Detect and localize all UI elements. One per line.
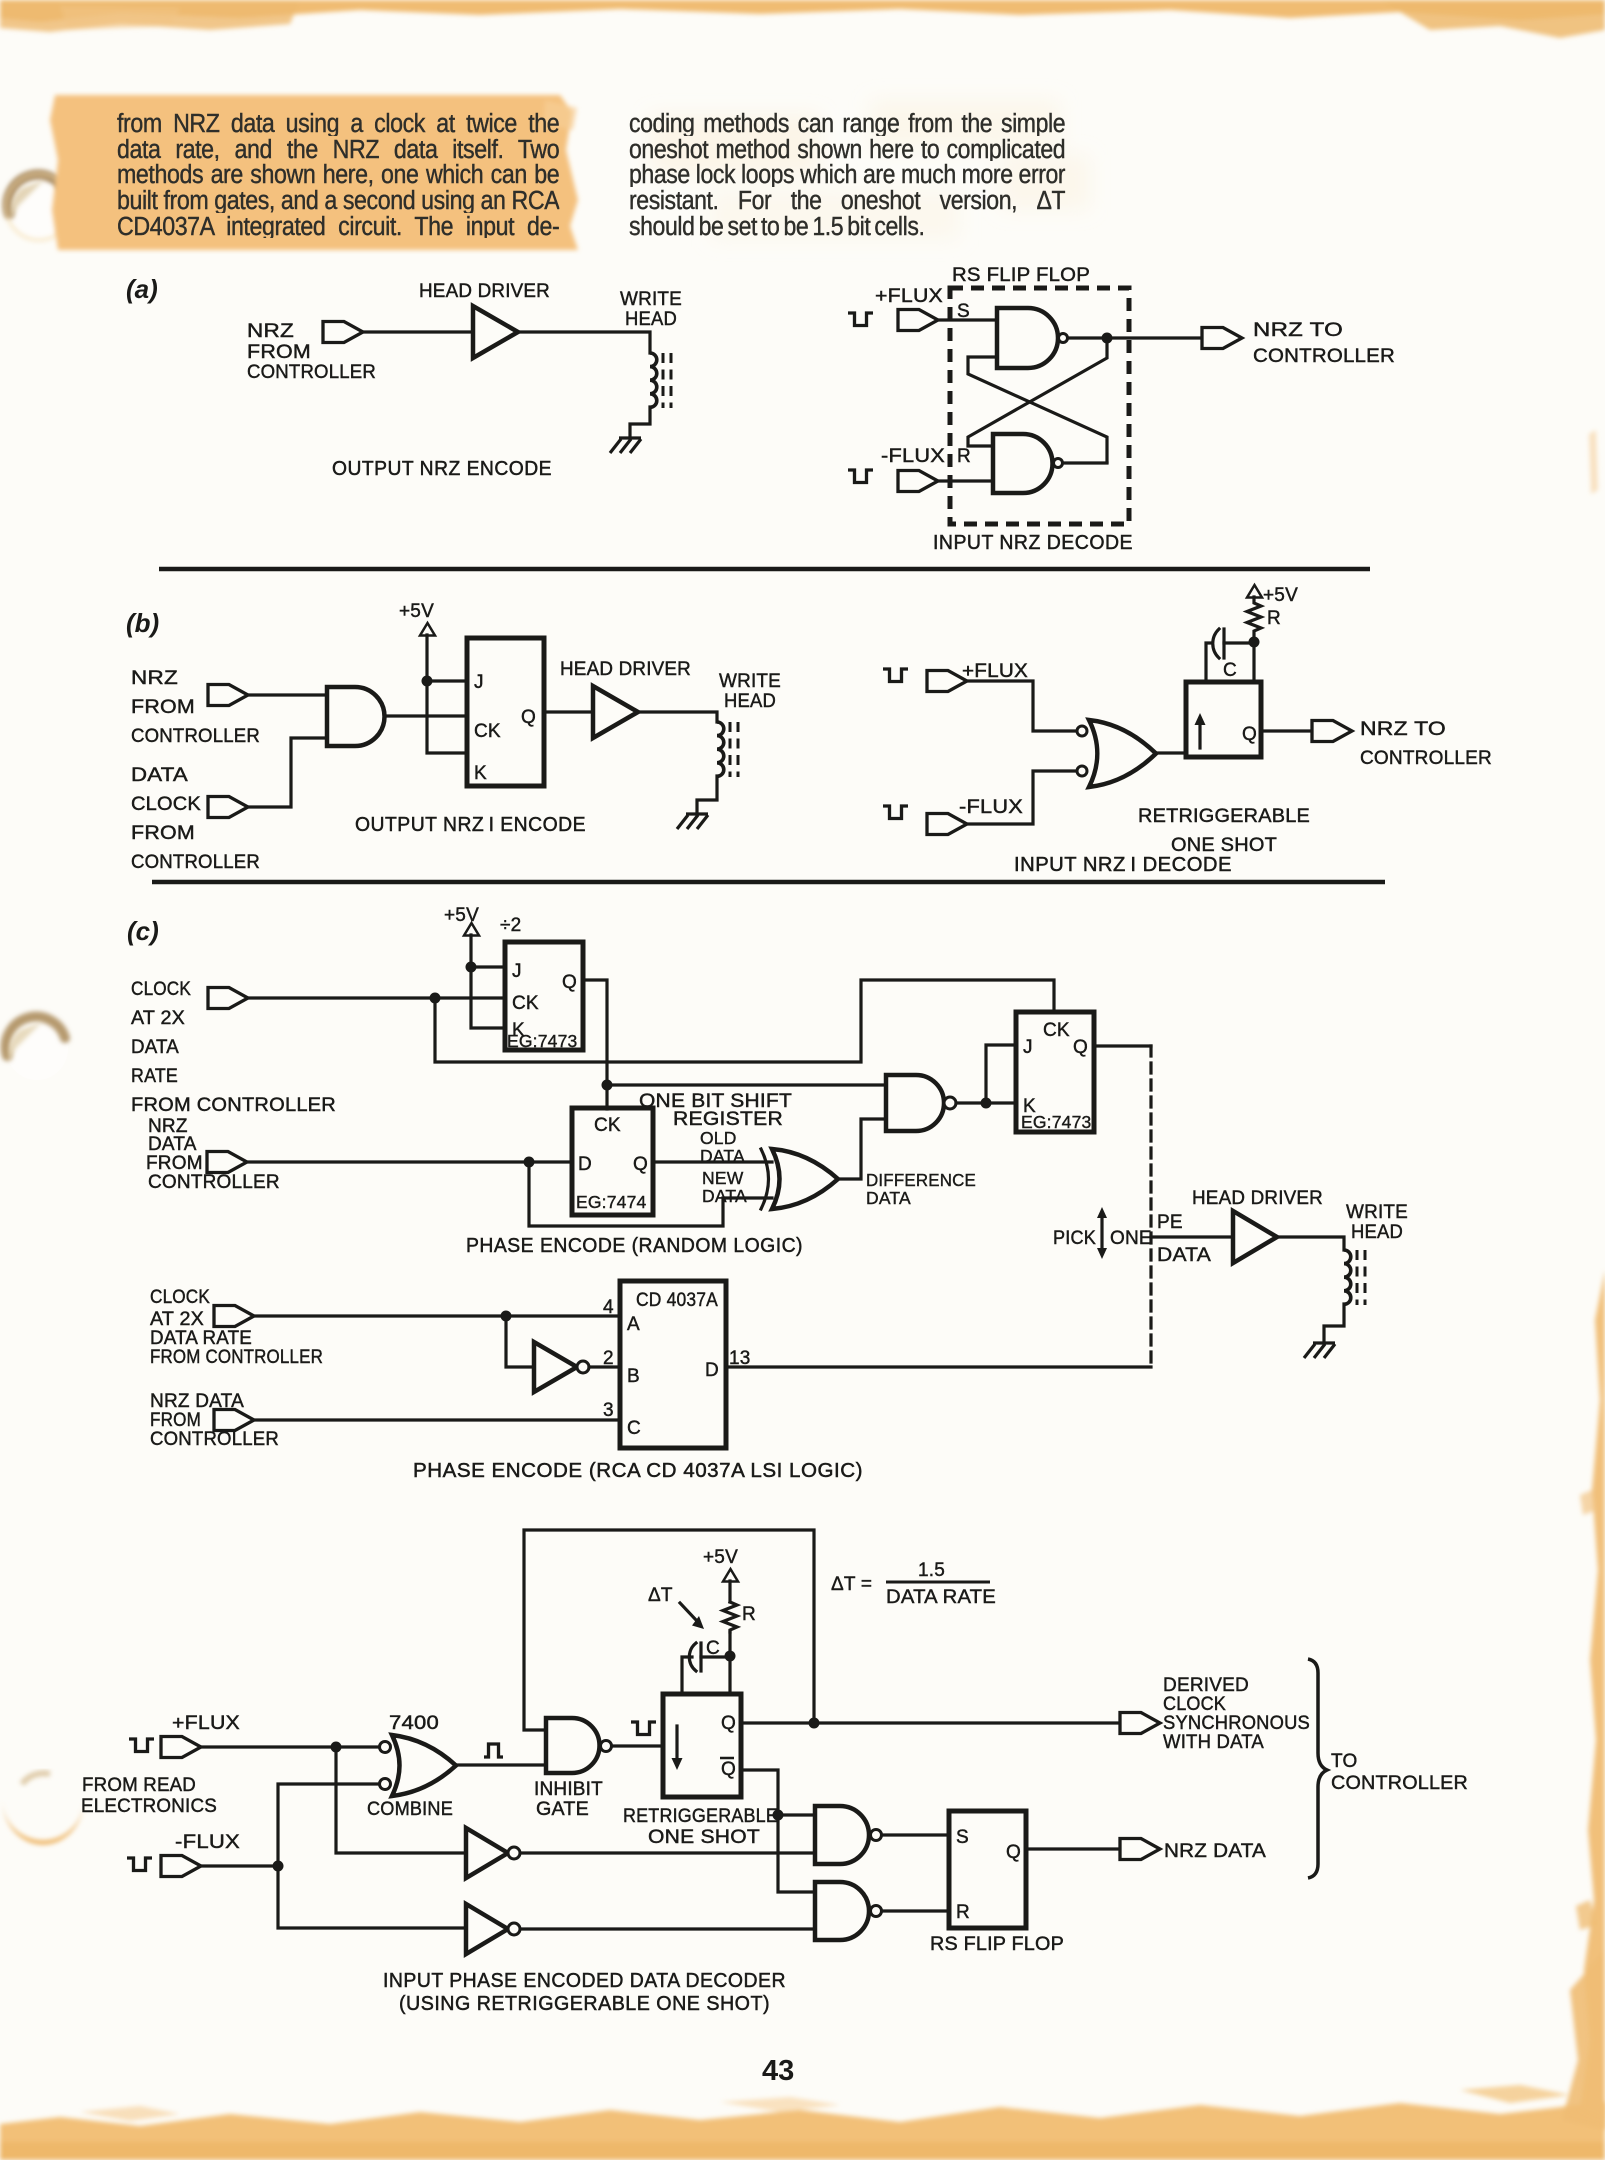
svg-text:D: D — [578, 1154, 592, 1175]
junction — [1102, 333, 1113, 344]
svg-text:CONTROLLER: CONTROLLER — [1331, 1773, 1468, 1794]
svg-text:(USING RETRIGGERABLE ONE SHOT): (USING RETRIGGERABLE ONE SHOT) — [399, 1992, 770, 2015]
wire Q out — [1261, 729, 1312, 732]
wire cross-coupling from top output — [968, 338, 1107, 446]
inductor write head — [1344, 1250, 1365, 1305]
svg-text:CONTROLLER: CONTROLLER — [131, 726, 260, 747]
svg-text:4: 4 — [603, 1297, 614, 1318]
flip-flop EG:7473 second — [1016, 1012, 1094, 1132]
svg-text:CK: CK — [512, 993, 539, 1014]
wire to C — [254, 1418, 620, 1421]
junction — [524, 1157, 535, 1168]
svg-text:DATA: DATA — [148, 1134, 197, 1155]
svg-text:AT 2X: AT 2X — [131, 1008, 185, 1029]
svg-text:AT 2X: AT 2X — [150, 1309, 204, 1330]
xor gate — [772, 1149, 838, 1209]
svg-text:CONTROLLER: CONTROLLER — [1360, 748, 1492, 769]
input connector +FLUX — [927, 671, 967, 692]
svg-text:EG:7473: EG:7473 — [1021, 1112, 1091, 1132]
junction — [602, 1080, 613, 1091]
svg-text:DATA: DATA — [866, 1188, 911, 1208]
wire — [967, 681, 1077, 731]
svg-text:COMBINE: COMBINE — [367, 1799, 453, 1820]
nand gate U1a — [997, 308, 1058, 368]
svg-text:DATA: DATA — [1157, 1245, 1211, 1266]
wire cross-coupling from bottom output — [968, 357, 1107, 462]
svg-text:HEAD DRIVER: HEAD DRIVER — [560, 659, 691, 680]
wire Q out — [741, 1721, 1120, 1724]
wire Q out to dashed — [1094, 1044, 1151, 1047]
svg-text:+5V: +5V — [703, 1547, 738, 1568]
svg-text:ELECTRONICS: ELECTRONICS — [81, 1796, 217, 1817]
svg-text:-FLUX: -FLUX — [959, 797, 1023, 818]
capacitor C — [1222, 629, 1225, 658]
wire Q to driver — [544, 710, 593, 713]
svg-text:ΔT =: ΔT = — [831, 1574, 872, 1595]
svg-text:43: 43 — [762, 2055, 794, 2087]
inverter 2 — [466, 1904, 508, 1954]
svg-text:DATA RATE: DATA RATE — [150, 1328, 252, 1349]
wire down to inverter 1 — [336, 1747, 466, 1853]
wire output — [1068, 336, 1202, 339]
wire clock down to 2nd FF — [435, 980, 1054, 1062]
wire — [248, 738, 327, 807]
svg-text:REGISTER: REGISTER — [673, 1109, 783, 1130]
svg-text:Q: Q — [1073, 1037, 1088, 1058]
svg-text:WITH DATA: WITH DATA — [1163, 1732, 1264, 1753]
svg-text:CONTROLLER: CONTROLLER — [247, 362, 376, 383]
input connector -FLUX — [927, 814, 967, 835]
JK flip-flop box — [467, 638, 544, 786]
svg-text:J: J — [474, 672, 484, 693]
svg-text:S: S — [956, 1827, 969, 1848]
svg-text:PHASE ENCODE (RCA CD 4037A LSI: PHASE ENCODE (RCA CD 4037A LSI LOGIC) — [413, 1459, 863, 1482]
svg-text:÷2: ÷2 — [500, 915, 521, 936]
svg-text:FROM: FROM — [131, 823, 195, 844]
double arrow — [1100, 1216, 1103, 1250]
pulse glyph — [129, 1739, 154, 1752]
punch hole 2 — [6, 1017, 68, 1080]
svg-text:INPUT NRZ I DECODE: INPUT NRZ I DECODE — [1014, 853, 1232, 876]
wire inverter1 to nand A — [520, 1851, 815, 1854]
svg-text:+FLUX: +FLUX — [172, 1713, 240, 1734]
svg-text:INPUT PHASE ENCODED DATA DECOD: INPUT PHASE ENCODED DATA DECODER — [383, 1969, 786, 1992]
ground — [610, 438, 641, 453]
svg-text:PE: PE — [1157, 1212, 1183, 1233]
svg-text:WRITE: WRITE — [620, 289, 682, 310]
wire — [201, 1745, 380, 1748]
wire — [697, 776, 717, 814]
svg-text:INHIBIT: INHIBIT — [534, 1779, 603, 1800]
wire up to combine — [278, 1784, 380, 1866]
svg-text:CONTROLLER: CONTROLLER — [1253, 346, 1395, 367]
pulse glyph — [848, 313, 873, 326]
svg-text:RS FLIP FLOP: RS FLIP FLOP — [930, 1934, 1064, 1955]
power +5V with resistor — [1247, 585, 1262, 598]
svg-text:DATA: DATA — [702, 1186, 747, 1206]
input connector R — [898, 471, 938, 492]
pulse glyph — [883, 669, 908, 682]
wire — [967, 771, 1077, 824]
svg-text:CK: CK — [474, 721, 501, 742]
svg-text:NRZ: NRZ — [247, 321, 294, 342]
svg-text:HEAD: HEAD — [724, 691, 776, 712]
svg-text:CLOCK: CLOCK — [131, 794, 201, 815]
svg-text:NRZ TO: NRZ TO — [1360, 719, 1446, 740]
svg-text:R: R — [956, 1902, 970, 1923]
svg-text:FROM READ: FROM READ — [82, 1775, 196, 1796]
svg-text:DATA: DATA — [131, 1037, 179, 1058]
output connector NRZ DATA — [1120, 1839, 1160, 1860]
inverter — [534, 1342, 577, 1392]
wire to D — [247, 1160, 572, 1163]
punch hole 3 (orange ring) — [2, 1772, 84, 1845]
wire — [248, 693, 327, 696]
wire — [1324, 1304, 1344, 1343]
svg-text:NRZ DATA: NRZ DATA — [1164, 1841, 1266, 1862]
input connector S — [898, 310, 938, 331]
svg-text:FROM CONTROLLER: FROM CONTROLLER — [150, 1347, 323, 1368]
svg-text:GATE: GATE — [536, 1799, 589, 1820]
svg-text:+5V: +5V — [444, 905, 479, 926]
faint mottling behind right column — [650, 100, 1090, 240]
nand gate — [886, 1075, 944, 1131]
right edge streaks — [1562, 430, 1605, 2130]
input connector CLOCK 2X — [214, 1306, 254, 1327]
input connector +FLUX — [161, 1737, 201, 1758]
svg-text:+5V: +5V — [399, 601, 434, 622]
pulse glyph — [127, 1858, 152, 1871]
punch hole 1 — [6, 174, 72, 240]
nor gate (or with input bubbles) — [1077, 726, 1087, 736]
svg-text:C: C — [627, 1418, 641, 1439]
wire cap to box — [1206, 642, 1254, 682]
svg-text:CD 4037A: CD 4037A — [636, 1290, 718, 1311]
input connector DATA CLOCK — [208, 797, 248, 818]
inductor write head — [650, 353, 671, 408]
svg-text:EG:7474: EG:7474 — [576, 1192, 647, 1212]
svg-text:OUTPUT NRZ ENCODE: OUTPUT NRZ ENCODE — [332, 457, 552, 480]
svg-text:DATA: DATA — [131, 765, 188, 786]
svg-text:FROM CONTROLLER: FROM CONTROLLER — [131, 1095, 336, 1116]
svg-text:HEAD DRIVER: HEAD DRIVER — [419, 281, 550, 302]
wire D out — [726, 1365, 1151, 1368]
wire — [518, 332, 650, 353]
junction — [430, 993, 441, 1004]
wire — [728, 1632, 731, 1694]
wire PE data — [1151, 1235, 1233, 1238]
brace to controller — [1308, 1659, 1327, 1878]
svg-text:PHASE ENCODE (RANDOM LOGIC): PHASE ENCODE (RANDOM LOGIC) — [466, 1234, 803, 1257]
inverter 1 — [466, 1828, 508, 1878]
svg-text:RETRIGGERABLE: RETRIGGERABLE — [1138, 806, 1310, 827]
wire down to inverter 2 — [278, 1866, 466, 1928]
wire cap leads — [682, 1657, 730, 1694]
svg-text:RS FLIP FLOP: RS FLIP FLOP — [952, 265, 1090, 286]
svg-text:RATE: RATE — [131, 1066, 178, 1087]
amplifier head driver — [593, 686, 638, 738]
svg-text:CLOCK: CLOCK — [1163, 1694, 1226, 1715]
RS flip flop box — [949, 1811, 1026, 1928]
svg-text:J: J — [512, 961, 522, 982]
input connector NRZ FROM CONTROLLER — [323, 322, 363, 343]
svg-text:D: D — [705, 1360, 719, 1381]
junction — [466, 962, 477, 973]
svg-text:-FLUX: -FLUX — [175, 1832, 240, 1853]
svg-text:(a): (a) — [126, 274, 158, 304]
input connector NRZ DATA — [207, 1152, 247, 1173]
svg-text:CK: CK — [594, 1115, 621, 1136]
dashed pick-one wire — [1149, 1046, 1152, 1367]
svg-text:TO: TO — [1331, 1751, 1357, 1772]
svg-text:FROM: FROM — [131, 697, 195, 718]
svg-text:B: B — [627, 1366, 640, 1387]
amplifier head driver — [473, 306, 518, 358]
svg-text:HEAD: HEAD — [625, 309, 677, 330]
output connector — [1312, 721, 1352, 742]
svg-text:Q: Q — [721, 1713, 736, 1734]
resistor R — [723, 1602, 737, 1632]
wire J tie — [471, 965, 505, 968]
wire — [630, 407, 650, 438]
svg-text:SYNCHRONOUS: SYNCHRONOUS — [1163, 1713, 1310, 1734]
svg-text:NEW: NEW — [702, 1168, 744, 1188]
svg-text:CLOCK: CLOCK — [150, 1287, 210, 1308]
svg-text:DIFFERENCE: DIFFERENCE — [866, 1170, 976, 1190]
wire to S — [882, 1833, 949, 1836]
svg-text:CK: CK — [1043, 1020, 1070, 1041]
combine gate (nand as or with bubbles) — [380, 1742, 391, 1753]
svg-text:(b): (b) — [126, 608, 159, 638]
svg-text:NRZ TO: NRZ TO — [1253, 320, 1343, 341]
svg-text:WRITE: WRITE — [719, 671, 781, 692]
svg-text:Q: Q — [1242, 724, 1257, 745]
separator rule — [152, 880, 1385, 885]
wire — [201, 1864, 278, 1867]
wire inverter2 to nand B — [520, 1927, 815, 1930]
pulse glyph — [848, 470, 873, 483]
svg-text:DERIVED: DERIVED — [1163, 1675, 1249, 1696]
svg-text:DATA RATE: DATA RATE — [886, 1587, 996, 1608]
one shot box — [1186, 682, 1261, 757]
svg-text:Q: Q — [721, 1759, 736, 1780]
svg-text:CONTROLLER: CONTROLLER — [131, 852, 260, 873]
dashed box RS flip flop — [950, 288, 1129, 524]
wire to R — [938, 479, 993, 482]
flip-flop EG:7473 divide-by-2 — [505, 942, 583, 1050]
wire Q to xor — [653, 1160, 772, 1163]
junction — [501, 1311, 512, 1322]
one shot box — [663, 1694, 741, 1797]
wire Q down — [583, 980, 607, 1109]
svg-text:2: 2 — [603, 1348, 614, 1369]
bottom edge band — [0, 2085, 1605, 2160]
svg-text:EG:7473: EG:7473 — [507, 1031, 577, 1051]
trigger arrow down — [675, 1726, 678, 1760]
svg-text:CLOCK: CLOCK — [131, 979, 191, 1000]
separator rule — [159, 567, 1370, 572]
nand gate U1b — [993, 434, 1053, 493]
wire to inverter — [506, 1316, 534, 1367]
wire to R — [882, 1909, 949, 1912]
svg-text:+FLUX: +FLUX — [875, 286, 943, 307]
wire to J — [986, 1045, 1016, 1103]
wire inhibit out — [612, 1744, 663, 1747]
wire J — [427, 679, 467, 682]
svg-text:R: R — [742, 1604, 756, 1625]
wire to nand A top — [778, 1813, 815, 1816]
wire nand out — [956, 1101, 1016, 1104]
junction — [273, 1861, 284, 1872]
svg-text:7400: 7400 — [389, 1713, 439, 1734]
svg-text:RETRIGGERABLE: RETRIGGERABLE — [623, 1806, 778, 1827]
wire to one shot — [1155, 751, 1186, 754]
svg-text:ONE SHOT: ONE SHOT — [648, 1827, 760, 1848]
svg-text:WRITE: WRITE — [1346, 1202, 1408, 1223]
junction J tie — [422, 676, 433, 687]
svg-text:OLD: OLD — [700, 1128, 737, 1148]
pulse glyph positive — [484, 1744, 503, 1757]
junction — [331, 1742, 342, 1753]
svg-text:C: C — [1223, 660, 1237, 681]
svg-text:INPUT NRZ DECODE: INPUT NRZ DECODE — [933, 531, 1133, 554]
svg-text:S: S — [957, 301, 970, 322]
wire xor out to nand — [837, 1119, 886, 1179]
svg-text:+FLUX: +FLUX — [962, 661, 1028, 682]
svg-text:OUTPUT NRZ I ENCODE: OUTPUT NRZ I ENCODE — [355, 813, 586, 836]
orange highlight behind left paragraph — [50, 95, 578, 250]
junction — [1249, 637, 1260, 648]
wire feedback loop Q to inhibit gate — [524, 1530, 814, 1730]
wire clock — [248, 996, 505, 999]
wire Q to NRZ DATA — [1026, 1847, 1120, 1850]
svg-text:Q: Q — [633, 1154, 648, 1175]
svg-text:Q: Q — [521, 707, 536, 728]
output connector NRZ TO CONTROLLER — [1202, 328, 1242, 349]
svg-text:FROM: FROM — [247, 342, 311, 363]
svg-text:Q: Q — [1006, 1842, 1021, 1863]
svg-text:-FLUX: -FLUX — [881, 446, 945, 467]
svg-text:PICK: PICK — [1053, 1228, 1096, 1249]
svg-text:R: R — [957, 446, 971, 467]
output connector derived clock — [1120, 1713, 1160, 1734]
wire Qbar down — [741, 1770, 815, 1892]
trigger arrow up — [1198, 722, 1201, 748]
wire — [638, 712, 717, 722]
junction — [725, 1651, 736, 1662]
svg-text:K: K — [474, 763, 487, 784]
svg-text:A: A — [627, 1314, 640, 1335]
nand gate B — [815, 1882, 869, 1940]
top edge band — [0, 0, 1605, 38]
wire to CK — [385, 714, 467, 717]
svg-text:(c): (c) — [127, 916, 159, 946]
wire new data path — [529, 1162, 772, 1226]
capacitor C — [699, 1643, 702, 1671]
junction — [809, 1718, 820, 1729]
input connector -FLUX — [161, 1856, 201, 1877]
svg-text:FROM: FROM — [150, 1410, 201, 1431]
wire — [1063, 461, 1107, 464]
junction — [773, 1810, 784, 1821]
svg-text:HEAD DRIVER: HEAD DRIVER — [1192, 1188, 1323, 1209]
svg-text:HEAD: HEAD — [1351, 1222, 1403, 1243]
svg-text:CONTROLLER: CONTROLLER — [150, 1429, 279, 1450]
input connector CLOCK — [208, 988, 248, 1009]
svg-text:ΔT: ΔT — [648, 1585, 673, 1606]
wire to A — [254, 1314, 620, 1317]
svg-text:Q: Q — [562, 972, 577, 993]
svg-text:3: 3 — [603, 1400, 614, 1421]
ground — [1304, 1343, 1335, 1358]
pulse glyph — [631, 1722, 656, 1735]
wire to nand — [607, 1083, 886, 1086]
svg-text:R: R — [1267, 608, 1281, 629]
svg-text:FROM: FROM — [146, 1153, 203, 1174]
amplifier head driver — [1233, 1211, 1277, 1263]
inductor write head — [717, 722, 738, 777]
input connector NRZ DATA — [214, 1410, 254, 1431]
wire combine to inhibit — [456, 1763, 546, 1766]
wire to B — [589, 1365, 620, 1368]
input connector NRZ — [208, 685, 248, 706]
resistor R — [1247, 597, 1261, 642]
inhibit nand gate — [546, 1718, 600, 1773]
ground — [677, 814, 708, 829]
nand gate A — [815, 1806, 869, 1864]
wire — [1277, 1237, 1344, 1250]
svg-text:ONE: ONE — [1110, 1228, 1152, 1249]
svg-text:NRZ: NRZ — [131, 668, 178, 689]
svg-text:CONTROLLER: CONTROLLER — [148, 1172, 280, 1193]
wire — [363, 330, 473, 333]
svg-text:+5V: +5V — [1263, 585, 1298, 606]
flip-flop EG:7474 — [572, 1108, 653, 1215]
pulse glyph — [883, 806, 908, 819]
svg-text:J: J — [1023, 1037, 1033, 1058]
junction — [981, 1098, 992, 1109]
IC CD4037A box — [620, 1281, 726, 1448]
body paragraphs — [117, 110, 559, 238]
wire to S — [938, 318, 997, 321]
svg-text:1.5: 1.5 — [918, 1560, 945, 1581]
and gate — [327, 687, 385, 746]
